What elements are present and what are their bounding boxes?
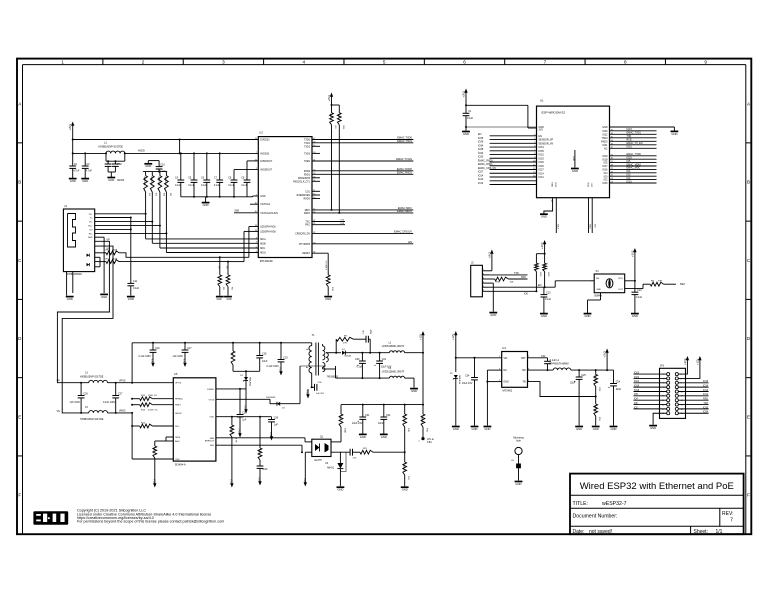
svg-text:F: F: [18, 493, 21, 498]
svg-text:2K49: 2K49: [112, 250, 118, 252]
svg-text:RESET: RESET: [302, 253, 310, 255]
ground J1 shield: [66, 297, 74, 301]
capacitor C15 68pF: [353, 329, 372, 354]
svg-text:C17: C17: [187, 347, 192, 350]
wire ethernet pair 3: [95, 192, 259, 248]
svg-text:RXER/RXEN: RXER/RXEN: [297, 195, 311, 197]
svg-text:MT2492: MT2492: [503, 389, 513, 393]
controller U5 left pin names: [175, 383, 183, 461]
inductor L2: [382, 343, 405, 353]
wire VN rail: [57, 410, 89, 414]
capacitor C28a (bead filter): [105, 160, 112, 172]
svg-text:FBH: FBH: [210, 438, 215, 440]
resistor R11 HV: [231, 343, 235, 372]
svg-text:GND: GND: [108, 178, 114, 182]
svg-text:GND: GND: [541, 314, 547, 318]
wire U1 bottom IO13 stub: [554, 182, 558, 233]
svg-text:VSS: VSS: [230, 479, 234, 485]
wire LED cathodes: [95, 257, 100, 267]
svg-text:C13: C13: [546, 291, 551, 294]
wire VP rail: [57, 380, 89, 384]
capacitor C35: [268, 416, 279, 431]
ground C11: [127, 297, 135, 301]
capacitor C30: [315, 382, 325, 395]
wire U1 pad gnd: [572, 150, 575, 168]
svg-text:RCL: RCL: [175, 426, 180, 428]
capacitor C24 out2: [608, 370, 621, 425]
svg-text:DVDDIOUT: DVDDIOUT: [260, 161, 273, 163]
svg-text:35: 35: [611, 136, 613, 138]
svg-text:8: 8: [624, 59, 627, 64]
svg-text:VIN: VIN: [504, 358, 508, 360]
controller U5 right pin names: [205, 389, 215, 447]
resistor R5 1K: [217, 257, 224, 295]
power +3V3 (ESP32): [461, 89, 467, 98]
svg-text:VSS: VSS: [151, 359, 155, 365]
svg-text:RXDV: RXDV: [304, 199, 311, 201]
module U1 right pin names: [601, 126, 608, 185]
capacitor C28b (bead filter): [112, 160, 125, 182]
svg-text:SRP4020TA-6R8M: SRP4020TA-6R8M: [549, 363, 569, 366]
svg-text:+3V3: +3V3: [603, 351, 607, 358]
power +3V3 output: [603, 349, 609, 371]
resistor R10 2.49K: [326, 260, 333, 295]
svg-text:GND: GND: [593, 427, 599, 431]
svg-text:C34: C34: [465, 374, 470, 377]
capacitor C18: [256, 343, 268, 372]
capacitor C32: [378, 405, 391, 434]
svg-text:RTL8201F: RTL8201F: [260, 259, 273, 263]
wire X1 out to R8: [625, 284, 651, 288]
ground JP1: [649, 426, 657, 430]
ground R6: [224, 297, 232, 301]
wire VDD net: [216, 416, 272, 418]
svg-text:GND: GND: [541, 215, 547, 219]
svg-text:33: 33: [611, 143, 613, 145]
svg-text:4.7uF: 4.7uF: [86, 170, 93, 173]
svg-text:TD-: TD-: [89, 222, 93, 224]
svg-text:GND: GND: [67, 297, 73, 301]
svg-text:37: 37: [611, 129, 613, 131]
svg-text:GND: GND: [484, 427, 490, 431]
svg-text:12: 12: [533, 168, 535, 170]
svg-text:C26: C26: [83, 392, 88, 395]
power +3V3 (J2): [487, 250, 493, 259]
svg-text:10K: 10K: [329, 114, 331, 118]
wire JP1 left nets: [634, 373, 667, 425]
wire U1 bottom IO2 stub: [590, 183, 595, 233]
svg-text:VSS: VSS: [258, 477, 262, 483]
svg-text:IO35: IO35: [478, 148, 484, 151]
wire EN net: [489, 284, 555, 292]
power VSS C16: [151, 358, 155, 368]
svg-text:TXEN: TXEN: [304, 161, 310, 163]
svg-text:49R9 1%: 49R9 1%: [158, 176, 160, 185]
ground R17: [401, 487, 409, 491]
resistor R22: [258, 417, 262, 466]
svg-text:IO27: IO27: [539, 169, 545, 172]
svg-text:1nF 2kV: 1nF 2kV: [316, 393, 325, 395]
svg-text:49R9 1%: 49R9 1%: [143, 176, 145, 185]
svg-text:2.49K 1%: 2.49K 1%: [326, 260, 328, 270]
capacitor C33: [350, 449, 357, 460]
svg-text:GND: GND: [128, 297, 134, 301]
svg-text:IO26: IO26: [539, 165, 545, 168]
wire net EMAC TXD1: [312, 139, 413, 143]
capacitor C20: [355, 353, 366, 378]
wire VP rail right: [108, 381, 174, 384]
svg-text:SENSOR_VN: SENSOR_VN: [539, 142, 554, 145]
svg-text:VSS: VSS: [306, 390, 310, 396]
op-amp U2 right pin names: [293, 138, 320, 255]
svg-text:11: 11: [533, 164, 535, 166]
svg-text:GND: GND: [463, 132, 469, 136]
resistor R7 2K49: [95, 258, 119, 263]
wire net EMAC RXD0: [312, 167, 413, 171]
svg-text:22uF: 22uF: [616, 388, 622, 391]
svg-text:Sheet:: Sheet:: [694, 529, 708, 535]
svg-text:EMAC TX EN: EMAC TX EN: [396, 157, 412, 161]
resistor R15a 10K: [542, 263, 549, 287]
svg-text:TXC: TXC: [305, 222, 310, 224]
wire DVDD-AVDD tie: [179, 139, 181, 155]
svg-text:EMAC TXD1: EMAC TXD1: [397, 139, 412, 143]
svg-text:GND: GND: [145, 164, 151, 168]
svg-text:6: 6: [483, 290, 484, 292]
svg-text:TXD0: TXD0: [304, 140, 311, 142]
svg-text:10nF: 10nF: [262, 468, 268, 471]
resistor R20 sense: [152, 446, 156, 478]
wire U1 bottom IO15 stub: [586, 182, 590, 233]
svg-text:GND: GND: [611, 427, 617, 431]
ground C31: [359, 434, 367, 438]
capacitor C9: [241, 161, 250, 197]
svg-text:VDD: VDD: [209, 417, 214, 419]
svg-text:27K: 27K: [343, 342, 347, 344]
title block Date row: [570, 526, 744, 535]
svg-text:IO39: IO39: [478, 141, 484, 144]
resistor R24 fb bottom: [593, 404, 600, 426]
wire net EMAC TX EN: [312, 157, 413, 161]
wire TXD net: [489, 272, 528, 275]
wire C11 vertical: [130, 218, 132, 284]
ground secondary: [410, 389, 418, 393]
svg-text:1uF: 1uF: [242, 418, 247, 421]
svg-text:0.1uF 100V: 0.1uF 100V: [267, 365, 280, 368]
svg-text:68pF: 68pF: [371, 329, 373, 334]
svg-text:C19: C19: [283, 356, 288, 359]
resistor R19 4.7K: [230, 417, 237, 445]
wire FB net: [528, 382, 596, 397]
capacitor C22 bootstrap: [528, 355, 557, 371]
svg-text:REV:: REV:: [722, 511, 733, 517]
ground EN wire: [484, 427, 492, 431]
svg-text:33: 33: [550, 200, 552, 202]
wire net EMAC MDIO: [312, 209, 413, 213]
wire L6 to gnd: [405, 378, 414, 388]
ground cap row: [202, 203, 210, 207]
svg-text:36: 36: [611, 133, 613, 135]
svg-text:GND: GND: [216, 299, 221, 301]
svg-text:30: 30: [611, 158, 613, 160]
svg-text:TXD: TXD: [703, 403, 708, 405]
wire net EMAC RXD1: [312, 170, 413, 174]
svg-text:1: 1: [483, 269, 484, 271]
resistor R13a 10K: [337, 105, 344, 214]
svg-text:GND: GND: [490, 313, 496, 317]
resistor R14 RCL: [131, 423, 173, 428]
svg-text:IO14: IO14: [703, 386, 709, 388]
svg-text:B: B: [747, 180, 750, 185]
svg-text:TC: TC: [90, 218, 93, 220]
svg-text:GND: GND: [82, 179, 88, 183]
svg-text:GND: GND: [411, 389, 417, 393]
svg-text:EN: EN: [408, 240, 412, 244]
wire U1 extra left nets: [478, 178, 537, 185]
wire U1 right pin nets: [610, 128, 657, 183]
svg-text:RXD0: RXD0: [304, 171, 311, 173]
svg-text:VPOS: VPOS: [175, 383, 182, 385]
svg-text:49R9 1%: 49R9 1%: [150, 176, 152, 185]
svg-text:IO16: IO16: [627, 146, 633, 149]
wire R11-C18 node: [233, 370, 260, 372]
resistor R6 1K: [226, 262, 233, 296]
svg-text:12V at: 12V at: [427, 438, 434, 441]
wire opto out rail: [331, 451, 350, 453]
wire opto cathode: [305, 452, 312, 477]
svg-text:GND: GND: [472, 427, 478, 431]
svg-text:ISNS: ISNS: [175, 437, 181, 439]
svg-text:Hs: Hs: [306, 349, 308, 351]
power VSS C19: [279, 366, 283, 376]
capacitor C1: [463, 110, 474, 120]
svg-text:GND: GND: [260, 196, 265, 198]
resistor R16 6.49K: [421, 405, 428, 439]
svg-text:TXD: TXD: [514, 272, 519, 275]
svg-text:GND: GND: [325, 297, 331, 301]
wire FBH to opto: [216, 438, 312, 442]
svg-text:TXD2: TXD2: [304, 146, 311, 148]
wire EN to X1: [555, 281, 594, 287]
svg-text:IO12: IO12: [478, 182, 484, 185]
svg-text:GND: GND: [671, 132, 677, 136]
svg-text:25: 25: [611, 175, 613, 177]
svg-text:TITLE:: TITLE:: [573, 501, 589, 507]
power VSS D2: [244, 404, 248, 414]
capacitor C5 0.1uF: [188, 177, 197, 197]
wire fb top rail: [341, 404, 424, 406]
wire VNEG drop: [132, 413, 173, 459]
resistor R4 49R9: [158, 172, 165, 197]
svg-text:1nF 100V: 1nF 100V: [70, 401, 81, 404]
svg-text:IO33: IO33: [539, 157, 545, 160]
svg-text:EN: EN: [538, 284, 542, 287]
power +12V (buck): [451, 331, 457, 340]
title text: [580, 481, 734, 492]
svg-text:MDIO: MDIO: [304, 213, 310, 215]
ground C24: [610, 427, 618, 431]
svg-text:F: F: [747, 493, 750, 498]
regulator U4 MT2492 box: [499, 346, 529, 393]
svg-text:GND: GND: [337, 488, 343, 492]
svg-text:IO13: IO13: [557, 224, 559, 230]
oscillator X1 box: [594, 269, 625, 297]
svg-text:C32: C32: [386, 414, 391, 417]
svg-text:IO14: IO14: [539, 172, 545, 175]
svg-text:43K 1%: 43K 1%: [402, 415, 404, 422]
svg-text:GND: GND: [572, 169, 578, 173]
svg-text:50M: 50M: [680, 283, 685, 286]
wire D1 out node: [345, 352, 389, 354]
svg-text:10: 10: [533, 161, 535, 163]
svg-text:IO36: IO36: [478, 137, 484, 140]
svg-text:hole: hole: [516, 440, 521, 443]
svg-text:+12V: +12V: [451, 333, 455, 340]
diode D3 1N4148W: [266, 397, 286, 410]
svg-text:10uF 16V: 10uF 16V: [352, 422, 363, 425]
power VSS C29: [238, 428, 242, 438]
power VSS opto: [303, 477, 307, 487]
wire buck VIN rail: [456, 357, 502, 359]
power VSS C35: [269, 431, 273, 441]
svg-text:C36: C36: [274, 416, 279, 419]
wire J1 shield pins: [67, 272, 73, 296]
svg-text:7: 7: [544, 59, 547, 64]
wire HV rail: [132, 342, 312, 344]
capacitor C31: [352, 405, 370, 434]
power +3V3 (X1): [630, 248, 636, 257]
svg-text:EMAC_CRS_DV: EMAC_CRS_DV: [478, 167, 496, 170]
module U1 ESP-WROOM-32 box: [537, 99, 610, 198]
svg-text:+3V3: +3V3: [540, 242, 544, 249]
capacitor C36b: [257, 466, 269, 476]
svg-text:VPOS: VPOS: [119, 381, 126, 383]
svg-text:B260A: B260A: [345, 354, 352, 357]
resistor R13 24.3K: [131, 403, 173, 412]
ground C14: [631, 314, 639, 318]
svg-text:5: 5: [383, 59, 386, 64]
svg-text:RXC: RXC: [305, 225, 310, 227]
svg-text:33R: 33R: [658, 281, 662, 283]
svg-text:GND: GND: [602, 126, 608, 129]
svg-text:NC: NC: [604, 147, 608, 150]
power VSS C36: [258, 476, 262, 486]
svg-text:1uF 100V: 1uF 100V: [173, 355, 184, 358]
capacitor C11: [127, 280, 139, 296]
svg-text:RFREQ: RFREQ: [175, 399, 183, 401]
svg-text:49R9 1%: 49R9 1%: [164, 176, 166, 185]
svg-text:E: E: [18, 414, 21, 419]
svg-text:TFP8011500C: TFP8011500C: [66, 273, 82, 276]
svg-text:IO14: IO14: [478, 174, 484, 177]
ground C1: [462, 132, 470, 136]
resistor R1 49R9: [143, 172, 150, 197]
svg-text:wESP32-7: wESP32-7: [602, 501, 627, 507]
inductor L5: [80, 406, 107, 421]
svg-text:VN: VN: [57, 410, 61, 413]
svg-text:MDC: MDC: [305, 210, 311, 212]
resistor R8 33R: [650, 281, 684, 287]
capacitor C10: [148, 161, 166, 174]
svg-text:AVDD: AVDD: [138, 149, 145, 152]
svg-text:8: 8: [534, 153, 535, 155]
wire ethernet pair 4: [95, 192, 259, 253]
svg-text:Date:: Date:: [573, 529, 585, 535]
svg-text:27: 27: [611, 168, 613, 170]
wire LED1 net: [119, 227, 258, 259]
resistor R12a 10K: [329, 105, 336, 211]
title block outer box: [570, 474, 744, 535]
svg-text:IO19: IO19: [634, 386, 640, 388]
resistor R2 49R9: [150, 172, 157, 197]
power VSS R20: [152, 478, 156, 488]
svg-text:B2303: B2303: [118, 180, 125, 182]
svg-text:EMAC MDIO: EMAC MDIO: [397, 209, 412, 213]
svg-text:6: 6: [256, 251, 257, 253]
svg-text:50MHz: 50MHz: [594, 295, 602, 298]
svg-text:GND: GND: [576, 427, 582, 431]
svg-text:1N4148W: 1N4148W: [266, 397, 275, 399]
capacitor C29: [237, 389, 248, 428]
svg-text:C29: C29: [242, 411, 247, 414]
svg-text:IO13: IO13: [554, 182, 556, 188]
svg-text:Wired ESP32 with Ethernet and: Wired ESP32 with Ethernet and PoE: [580, 481, 734, 492]
svg-text:GND: GND: [551, 182, 553, 187]
svg-text:VP: VP: [57, 380, 61, 383]
wire VP tap: [57, 238, 110, 382]
controller U5 SI3404 box: [173, 372, 216, 466]
wire U4 gnd pin: [487, 381, 501, 383]
wire 3V3 top link: [466, 105, 537, 128]
svg-text:28: 28: [611, 165, 613, 167]
svg-text:EN/SD: EN/SD: [207, 389, 214, 391]
resistor R9 27K: [336, 336, 353, 345]
ground R5: [216, 297, 224, 301]
svg-text:VSS: VSS: [244, 405, 248, 411]
svg-text:9: 9: [704, 59, 707, 64]
svg-text:13: 13: [533, 172, 535, 174]
wire VT1S net: [216, 399, 277, 403]
svg-text:10K: 10K: [534, 264, 536, 268]
svg-text:VSS: VSS: [183, 359, 187, 365]
wire SW node: [528, 369, 554, 371]
wire LED0 net: [119, 231, 258, 262]
svg-text:EN: EN: [596, 278, 599, 280]
svg-text:C20: C20: [355, 358, 360, 361]
svg-text:4: 4: [256, 242, 257, 244]
svg-text:+3V3: +3V3: [487, 252, 491, 259]
svg-text:28: 28: [255, 225, 257, 227]
resistor R16a 10K: [534, 263, 541, 291]
resistor R17 lower fb: [402, 452, 409, 486]
svg-text:IO33: IO33: [478, 156, 484, 159]
svg-text:+3V3: +3V3: [68, 124, 72, 131]
wire net EN: [312, 240, 413, 244]
svg-text:C22: C22: [541, 355, 546, 358]
svg-text:IO35: IO35: [539, 150, 545, 153]
capacitor C17: [173, 343, 193, 358]
connector J1 box: [63, 204, 94, 276]
svg-text:IO32: IO32: [478, 152, 484, 155]
svg-text:LED1/PHYAD1: LED1/PHYAD1: [260, 226, 276, 229]
svg-text:RXD1: RXD1: [304, 174, 311, 176]
inductor L1: [99, 141, 145, 154]
svg-text:VNEG: VNEG: [119, 411, 126, 413]
svg-text:SHDN: SHDN: [175, 413, 182, 415]
resistor R21: [353, 448, 405, 454]
svg-text:GND: GND: [360, 435, 366, 439]
svg-text:Document Number:: Document Number:: [573, 514, 618, 520]
